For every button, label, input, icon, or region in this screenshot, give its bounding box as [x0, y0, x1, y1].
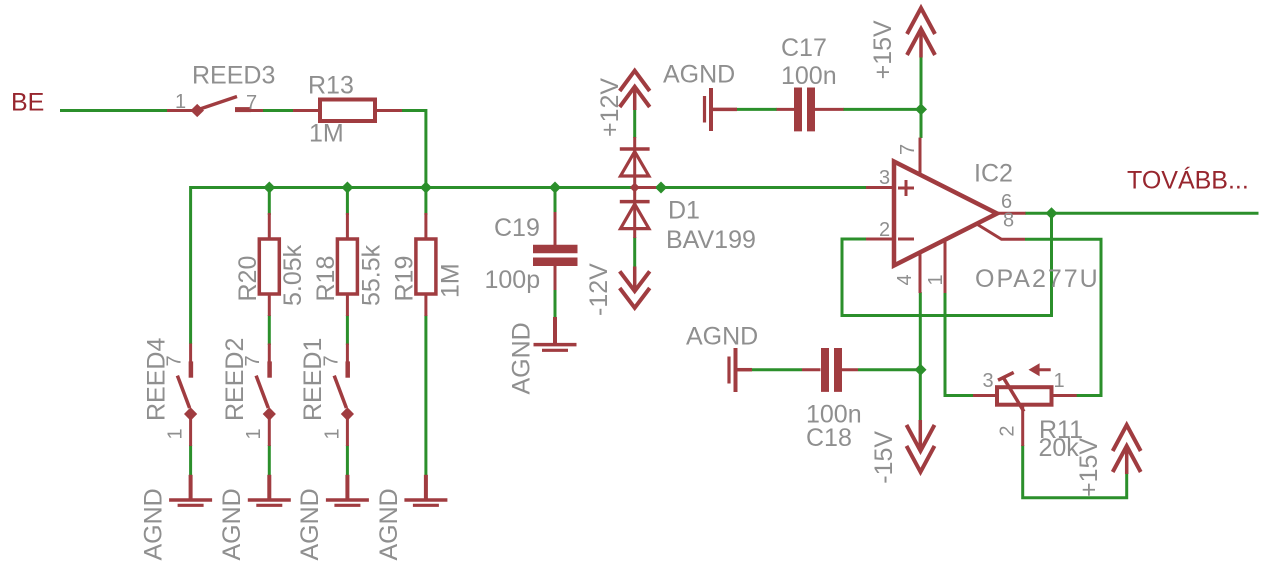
reed switch REED3 contact + pin 7: [235, 109, 263, 112]
svg-text:R13: R13: [308, 72, 354, 100]
svg-text:BAV199: BAV199: [666, 226, 756, 254]
svg-text:C19: C19: [494, 214, 540, 242]
svg-text:R20: R20: [234, 256, 262, 302]
node output: [1046, 207, 1058, 219]
wire pin8 to pot pin1: [1025, 239, 1101, 395]
ROTATED TEXT LABELS: [139, 20, 1103, 561]
svg-text:AGND: AGND: [686, 323, 758, 351]
svg-text:-12V: -12V: [585, 263, 613, 316]
svg-text:C17: C17: [781, 34, 827, 62]
ground AGND under REED1: [326, 475, 369, 506]
reed switch REED3 arrowhead: [190, 104, 204, 117]
resistor R20 body and pins: [268, 213, 271, 239]
node bus/R19: [420, 182, 432, 194]
ground AGND under C19: [534, 317, 577, 350]
wire C18 to -15V node: [858, 368, 921, 371]
svg-text:100p: 100p: [485, 266, 541, 294]
svg-text:TOVÁBB...: TOVÁBB...: [1127, 166, 1249, 195]
svg-text:1: 1: [1054, 370, 1065, 392]
resistor R13 body: [320, 100, 375, 122]
ground AGND under REED2: [248, 475, 291, 506]
diode D1 dual BAV199: [620, 137, 656, 238]
wire R13 to bus corner: [401, 111, 426, 188]
pin 6 stub: [997, 212, 1026, 215]
svg-text:IC2: IC2: [974, 160, 1013, 188]
wire REED3 to R13: [263, 109, 294, 112]
pin 3 stub: [866, 186, 894, 189]
wire AGND to C18: [752, 368, 802, 371]
svg-text:7: 7: [242, 355, 264, 366]
ground AGND at C17: [705, 88, 738, 131]
svg-text:AGND: AGND: [663, 61, 735, 89]
svg-text:3: 3: [983, 370, 994, 392]
R11 wiper: [1003, 376, 1024, 411]
svg-text:REED4: REED4: [142, 338, 170, 421]
pin 4 stub: [919, 252, 922, 293]
pin 1 stub: [944, 240, 947, 293]
wire D1 to -12V: [633, 237, 636, 267]
svg-text:AGND: AGND: [508, 322, 536, 394]
R11 pin 2 stub: [1021, 404, 1024, 446]
svg-text:1: 1: [925, 274, 947, 285]
svg-text:8: 8: [1003, 210, 1014, 232]
wire pot pin2 to +15V: [1023, 445, 1127, 498]
wire R19 column: [424, 188, 427, 216]
svg-text:1: 1: [175, 91, 186, 113]
supply +12V: [620, 71, 650, 110]
svg-text:2: 2: [997, 425, 1019, 436]
wire D1 to +12V: [633, 109, 636, 138]
resistor R19 body and pins: [424, 213, 427, 239]
svg-text:1M: 1M: [436, 263, 464, 298]
reed switch REED2: [256, 344, 270, 447]
wire main bus: [191, 186, 866, 189]
capacitor C17: [777, 88, 844, 132]
wire output to TOVABB: [1025, 212, 1259, 215]
svg-text:D1: D1: [668, 197, 700, 225]
R11 adjust arrow: [1032, 368, 1051, 371]
svg-text:AGND: AGND: [375, 488, 403, 560]
supply -15V: [907, 420, 935, 472]
node bus/R18: [341, 182, 353, 194]
svg-text:20k: 20k: [1039, 434, 1080, 462]
wire feedback pin2 loop: [842, 213, 1052, 315]
node bus/D1 right: [655, 182, 667, 194]
ground AGND under R19: [404, 475, 447, 506]
svg-text:55.5k: 55.5k: [357, 244, 385, 306]
reed switch REED4: [177, 344, 191, 447]
wire AGND to C17: [736, 108, 777, 111]
wire +15V to opamp pin7: [920, 56, 923, 138]
svg-text:1M: 1M: [309, 120, 344, 148]
svg-text:7: 7: [164, 355, 186, 366]
svg-text:AGND: AGND: [296, 488, 324, 560]
wire opamp pin1 to pot pin3: [945, 292, 973, 396]
reed switch REED3 pin 1: [167, 109, 196, 112]
wire C19 column: [554, 188, 557, 214]
wire REED4 to AGND: [189, 445, 192, 476]
wire R20 column: [268, 188, 271, 216]
svg-text:REED2: REED2: [221, 338, 249, 421]
svg-text:1: 1: [165, 428, 187, 439]
svg-text:R18: R18: [312, 256, 340, 302]
D1 middle pin stub: [635, 186, 656, 189]
resistor R13 pins: [293, 109, 320, 112]
svg-text:5.05k: 5.05k: [279, 244, 307, 306]
capacitor C18: [802, 348, 858, 392]
svg-text:3: 3: [879, 167, 890, 189]
reed switch REED1: [334, 344, 348, 447]
svg-text:AGND: AGND: [139, 488, 167, 560]
svg-text:REED1: REED1: [299, 338, 327, 421]
svg-text:1: 1: [321, 428, 343, 439]
svg-text:7: 7: [320, 355, 342, 366]
supply +15V bottom right: [1113, 425, 1141, 474]
node bus/R20: [263, 182, 275, 194]
supply +15V top: [907, 8, 935, 58]
wire BE to REED3: [60, 109, 168, 112]
potentiometer R11: [973, 370, 1077, 446]
svg-text:+15V: +15V: [1075, 438, 1103, 497]
pin 7 stub: [919, 138, 922, 175]
svg-text:C18: C18: [806, 424, 852, 452]
svg-text:+15V: +15V: [869, 20, 897, 79]
svg-text:7: 7: [897, 144, 919, 155]
supply -12V: [620, 267, 650, 308]
svg-text:+12V: +12V: [596, 78, 624, 137]
svg-text:BE: BE: [11, 89, 44, 117]
node bus/C19: [549, 182, 561, 194]
svg-text:100n: 100n: [781, 62, 837, 90]
svg-text:REED3: REED3: [192, 62, 275, 90]
svg-text:4: 4: [894, 274, 916, 285]
svg-text:OPA277U: OPA277U: [975, 265, 1100, 293]
node C18/-15V: [915, 364, 927, 376]
wire bus down to REED4: [189, 186, 192, 344]
svg-text:2: 2: [879, 219, 890, 241]
wire opamp pin4 to -15V node: [919, 292, 922, 421]
wire R18 column: [346, 188, 349, 216]
RED COMPONENTS: [167, 97, 436, 317]
wire C17 to +15V node: [843, 108, 921, 111]
reed switch REED3 blade: [197, 97, 237, 111]
pin 2 stub: [866, 238, 894, 241]
resistor R18 body and pins: [346, 213, 349, 239]
op-amp IC2 OPA277U: [866, 138, 1026, 293]
svg-text:-15V: -15V: [870, 431, 898, 484]
svg-text:1: 1: [243, 428, 265, 439]
svg-text:AGND: AGND: [218, 488, 246, 560]
node +15V/C17: [915, 103, 927, 115]
svg-text:R19: R19: [391, 256, 419, 302]
svg-text:7: 7: [246, 92, 257, 114]
node D1/bus red dot: [630, 183, 640, 193]
ground AGND at C18: [729, 348, 752, 392]
ground AGND under REED4: [169, 475, 212, 506]
capacitor C19: [533, 212, 578, 290]
pin 8 stub: [978, 225, 1026, 240]
